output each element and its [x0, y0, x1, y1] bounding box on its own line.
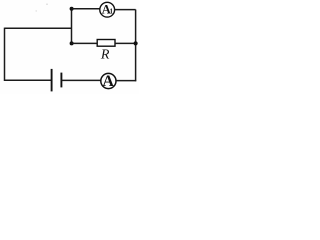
- svg-text:A: A: [102, 73, 114, 90]
- battery short plate: [60, 73, 62, 88]
- node dot resistor branch right junction: [134, 41, 138, 45]
- wire top branch left: [72, 8, 101, 10]
- wire ammeter A to right: [116, 80, 136, 82]
- ammeter A1 circle: [100, 2, 115, 17]
- svg-text:1: 1: [110, 7, 114, 15]
- ammeter A circle: [101, 73, 116, 88]
- scan speck: [36, 10, 37, 11]
- wire top branch right: [114, 9, 135, 11]
- scan speck: [46, 3, 48, 5]
- wire right vertical: [135, 10, 137, 82]
- wire bottom left: [5, 79, 52, 81]
- battery long plate: [51, 69, 53, 92]
- wire resistor branch left: [72, 42, 98, 44]
- wire battery to ammeter A: [62, 79, 101, 81]
- wire resistor branch right: [115, 42, 136, 44]
- wire middle vertical branch split: [71, 9, 73, 44]
- node dot resistor branch left: [70, 41, 74, 45]
- resistor R body: [97, 40, 115, 47]
- wire top horizontal: [5, 27, 72, 29]
- wire left vertical: [4, 28, 6, 81]
- node dot top split: [70, 7, 74, 11]
- svg-text:R: R: [100, 48, 110, 63]
